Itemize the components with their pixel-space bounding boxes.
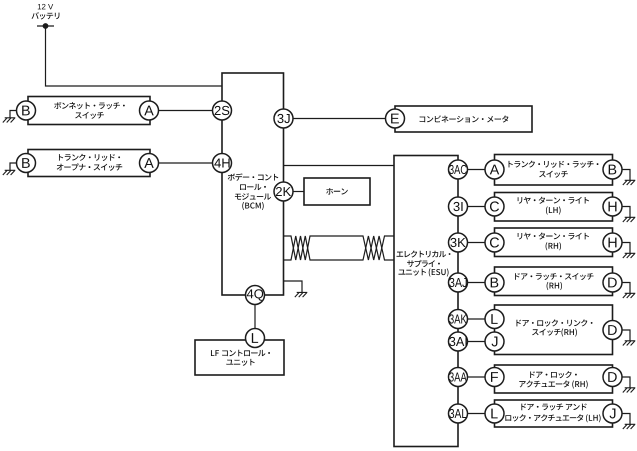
pin J (door lock link switch RH) <box>485 332 504 351</box>
terminal 3AJ (ESU) <box>449 273 468 292</box>
terminal 3AI (ESU) <box>449 332 468 351</box>
pin C (rear turn light RH) <box>485 233 504 252</box>
terminal 2K (BCM) <box>274 182 293 201</box>
wire to ground (door lock actuator RH D) <box>622 377 630 388</box>
label: box: door latch switch RH <box>515 273 594 290</box>
pin L (door lock link switch RH) <box>485 310 504 329</box>
wire pin B to ground (trunk lid opener switch) <box>10 163 17 170</box>
label: エレクトリカル・サプライ・ユニット (ESU) <box>397 251 451 277</box>
wire to ground (door latch switch RH D) <box>622 283 630 294</box>
wire ESU 3AL to pin L <box>467 413 485 415</box>
wire to ground (rear turn light LH H) <box>622 207 630 218</box>
wire ESU 3K to pin C <box>467 242 485 244</box>
label: ホーン (horn) <box>326 188 348 195</box>
label: box: rear turn light RH <box>518 232 589 250</box>
ground (rear turn light RH H) <box>623 253 636 258</box>
wire to ground (trunk lid latch switch B) <box>622 170 630 181</box>
box: trunk lid latch switch <box>495 155 613 186</box>
LF control unit box <box>195 340 284 375</box>
box: rear turn light RH <box>495 228 613 257</box>
pin D (door lock link switch RH) <box>603 321 622 340</box>
terminal 3J (BCM) <box>274 109 293 128</box>
wire ESU 3I to pin C <box>467 206 485 208</box>
twisted pair wire BCM to ESU (upper conductor) <box>284 236 395 260</box>
label: トランク・リッド・オープナ・スイッチ <box>57 154 123 171</box>
box: door lock link switch RH <box>495 305 613 355</box>
wire to ground (door latch and lock actuator LH J) <box>622 414 630 425</box>
label: バッテリ (battery) <box>32 12 60 19</box>
label: box: door lock actuator RH <box>519 371 587 388</box>
pin B (bonnet latch switch) <box>17 101 36 120</box>
wire BCM 4Q to LF control unit L <box>254 304 256 328</box>
ground (rear turn light LH H) <box>623 217 636 222</box>
terminal 4H (BCM) <box>213 154 232 173</box>
label: LF コントロール・ユニット <box>211 350 270 366</box>
label: box: door lock link switch RH <box>516 319 592 336</box>
box: door lock actuator RH <box>495 365 613 393</box>
wire BCM to ESU <box>284 165 395 167</box>
pin D (door lock actuator RH) <box>603 368 622 387</box>
pin A (trunk lid opener switch) <box>140 154 159 173</box>
wire pin A to BCM terminal 4H <box>158 162 212 164</box>
pin H (rear turn light RH) <box>603 233 622 252</box>
pin L (door latch and lock actuator LH) <box>485 404 504 423</box>
label: コンビネーション・メータ <box>420 115 509 122</box>
label: ボデー・コントロール・モジュール (BCM) <box>228 173 279 210</box>
terminal 2S (BCM) <box>213 101 232 120</box>
wire to ground (rear turn light RH H) <box>622 243 630 254</box>
pin B (trunk lid latch switch) <box>603 160 622 179</box>
pin A (bonnet latch switch) <box>140 101 159 120</box>
pin C (rear turn light LH) <box>485 197 504 216</box>
ground (bonnet latch switch) <box>3 118 16 123</box>
wire BCM 2K to horn <box>293 191 304 193</box>
pin A (trunk lid latch switch) <box>485 160 504 179</box>
pin J (door latch and lock actuator LH) <box>603 404 622 423</box>
battery 12V positive terminal <box>37 23 54 29</box>
BCM box: body control module <box>222 73 284 295</box>
label: box: trunk lid latch switch <box>509 161 599 178</box>
pin D (door latch switch RH) <box>603 273 622 292</box>
ground (door latch switch RH D) <box>623 293 636 298</box>
pin E (combination meter) <box>386 109 405 128</box>
ground (trunk lid latch switch B) <box>623 180 636 185</box>
wire BCM 3J to combination meter E <box>293 118 386 120</box>
twisted pair wire BCM to ESU (lower conductor) <box>284 236 395 260</box>
terminal 3K (ESU) <box>449 233 468 252</box>
ground (door lock link switch RH D) <box>623 341 636 346</box>
box: door latch and lock actuator LH <box>495 400 613 427</box>
pin L (LF control unit) <box>246 329 265 348</box>
switch box: trunk lid opener switch <box>28 150 150 177</box>
ground (BCM) <box>295 292 308 297</box>
wire ESU 3AJ to pin B <box>467 282 485 284</box>
ground (door lock actuator RH D) <box>623 388 636 393</box>
terminal 3AA (ESU) <box>449 368 468 387</box>
pin B (door latch switch RH) <box>485 273 504 292</box>
horn box <box>304 178 370 205</box>
label: ボンネット・ラッチ・スイッチ <box>54 102 125 119</box>
combination meter box <box>395 106 532 132</box>
pin B (trunk lid opener switch) <box>17 154 36 173</box>
terminal 3AC (ESU) <box>449 160 468 179</box>
switch box: bonnet latch switch <box>28 97 150 125</box>
box: rear turn light LH <box>495 193 613 222</box>
label: 12 V <box>38 4 53 9</box>
wire BCM to ground <box>284 281 303 292</box>
wire battery to BCM <box>46 27 222 86</box>
wire ESU 3AK to pin L <box>467 318 485 320</box>
terminal 3I (ESU) <box>449 197 468 216</box>
terminal 4Q (BCM) <box>246 286 265 305</box>
pin F (door lock actuator RH) <box>485 368 504 387</box>
wire pin A to BCM terminal 2S <box>158 110 212 112</box>
wire pin B to ground (bonnet latch switch) <box>10 111 17 118</box>
label: box: rear turn light LH <box>518 197 589 215</box>
ESU box: electrical supply unit <box>394 156 458 447</box>
wire to ground (door lock link switch RH D) <box>622 330 630 341</box>
terminal 3AL (ESU) <box>449 404 468 423</box>
wire ESU 3AC to pin A <box>467 169 485 171</box>
terminal 3AK (ESU) <box>449 310 468 329</box>
ground (trunk lid opener switch) <box>3 170 16 175</box>
wire ESU 3AA to pin F <box>467 376 485 378</box>
label: box: door latch and lock actuator LH <box>505 404 600 423</box>
wire ESU 3AI to pin J <box>467 341 485 343</box>
box: door latch switch RH <box>495 267 613 296</box>
ground (door latch and lock actuator LH J) <box>623 424 636 429</box>
pin H (rear turn light LH) <box>603 197 622 216</box>
